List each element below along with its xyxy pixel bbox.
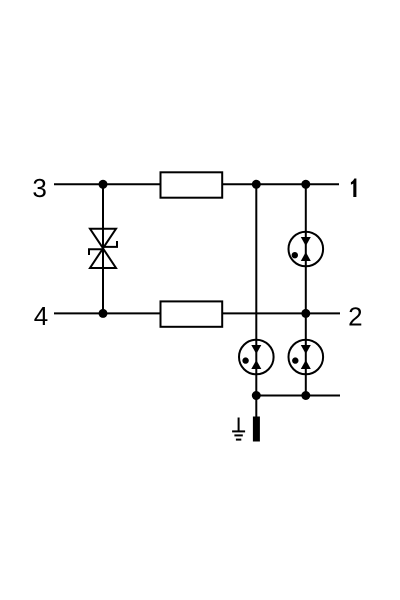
junction: top row / middle column xyxy=(252,180,261,189)
surge arrester F1 (gas discharge tube, node 1 to earth) xyxy=(289,232,324,267)
junction: node 4 / D1 xyxy=(99,309,108,318)
surge arrester F2 (gas discharge tube, middle column to earth) xyxy=(239,340,274,375)
resistor R2 xyxy=(161,301,223,326)
wire: vertical, node 3 to node 4 through D1 xyxy=(102,184,104,313)
svg-text:4: 4 xyxy=(34,301,48,331)
resistor R1 xyxy=(161,172,223,197)
svg-text:3: 3 xyxy=(32,173,46,203)
wire: terminal 3 to R1 xyxy=(54,183,161,185)
earth terminal bar xyxy=(253,417,260,442)
wire: R2 to terminal 2 xyxy=(222,312,340,314)
surge arrester F3 (gas discharge tube, node 2 to earth) xyxy=(289,340,324,375)
wire: earth rail xyxy=(256,395,340,397)
junction: earth rail / right column xyxy=(301,391,310,400)
wire: vertical, middle column (top row to earth rail) xyxy=(255,184,257,417)
wire: vertical, right column (top row to earth rail) xyxy=(305,184,307,395)
wire: terminal 4 to R2 xyxy=(54,312,161,314)
suppressor diode D1 (bidirectional TVS) xyxy=(89,229,117,268)
junction: top row / right column xyxy=(301,180,310,189)
ground symbol xyxy=(232,418,245,440)
svg-text:2: 2 xyxy=(348,302,362,332)
wire: R1 to terminal 1 xyxy=(222,183,339,185)
junction: node 3 / D1 xyxy=(99,180,108,189)
junction: node 2 / right column xyxy=(301,309,310,318)
node 1 label xyxy=(351,179,357,198)
junction: earth rail / middle column xyxy=(252,391,261,400)
